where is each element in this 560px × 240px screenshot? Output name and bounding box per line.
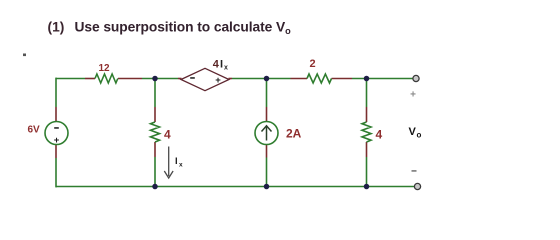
svg-text:(1): (1) — [48, 20, 65, 35]
svg-text:4: 4 — [164, 128, 171, 142]
svg-text:4: 4 — [213, 59, 220, 71]
svg-text:x: x — [224, 64, 228, 71]
svg-text:+: + — [410, 90, 416, 101]
svg-text:12: 12 — [99, 63, 111, 74]
svg-text:2A: 2A — [286, 127, 302, 141]
svg-text:+: + — [215, 75, 221, 86]
svg-text:Use superposition to calculate: Use superposition to calculate Vo — [75, 20, 292, 37]
svg-text:I: I — [220, 59, 223, 71]
svg-text:I: I — [175, 156, 178, 167]
svg-text:x: x — [179, 162, 183, 169]
svg-text:o: o — [417, 131, 422, 140]
svg-text:6V: 6V — [28, 125, 41, 136]
svg-text:2: 2 — [310, 58, 316, 70]
svg-text:V: V — [409, 126, 417, 138]
svg-text:+: + — [54, 135, 60, 146]
svg-text:4: 4 — [376, 128, 383, 142]
